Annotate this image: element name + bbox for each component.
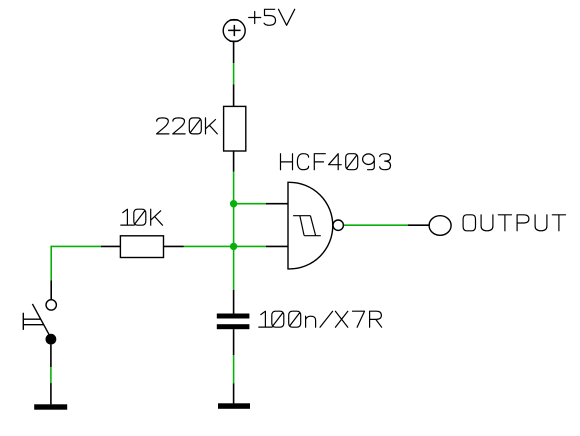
wire (344, 224, 408, 226)
wire (51, 245, 101, 247)
ground left (34, 404, 67, 409)
wire (233, 63, 235, 84)
wire (101, 245, 120, 247)
wire (266, 245, 288, 247)
switch S1 pushbutton (23, 300, 56, 336)
wire (233, 172, 235, 291)
wire (50, 367, 52, 383)
ground right (218, 403, 250, 409)
wire (50, 345, 52, 367)
node junction 2 (230, 243, 237, 250)
label 220K (157, 118, 218, 134)
wire (408, 224, 430, 226)
wire (233, 42, 235, 63)
inversion bubble (333, 220, 343, 230)
wire (233, 355, 235, 383)
wire (184, 245, 234, 247)
label 100n/X7R (259, 311, 382, 327)
hysteresis symbol (293, 216, 321, 236)
label 10K (121, 209, 163, 225)
switch pivot dot (46, 334, 57, 345)
wire (50, 383, 52, 404)
NAND gate U1 HCF4093 body (288, 182, 333, 269)
wire (50, 246, 52, 281)
label +5V (249, 9, 295, 25)
wire (266, 203, 288, 205)
wire (233, 84, 235, 106)
wire (233, 329, 235, 355)
wire (233, 383, 235, 403)
node OUTPUT pin circle (429, 216, 451, 236)
wire (234, 203, 266, 205)
resistor R1 220K (224, 106, 246, 151)
label HCF4093 (281, 154, 391, 170)
wire (234, 245, 266, 247)
wire (50, 281, 52, 300)
wire (164, 245, 184, 247)
capacitor C1 plates (217, 314, 250, 319)
wire (233, 290, 235, 314)
wire (233, 151, 235, 172)
label OUTPUT (463, 215, 565, 231)
node junction 1 (230, 200, 237, 207)
resistor R2 10K (120, 236, 163, 258)
power +5V symbol (223, 20, 245, 42)
